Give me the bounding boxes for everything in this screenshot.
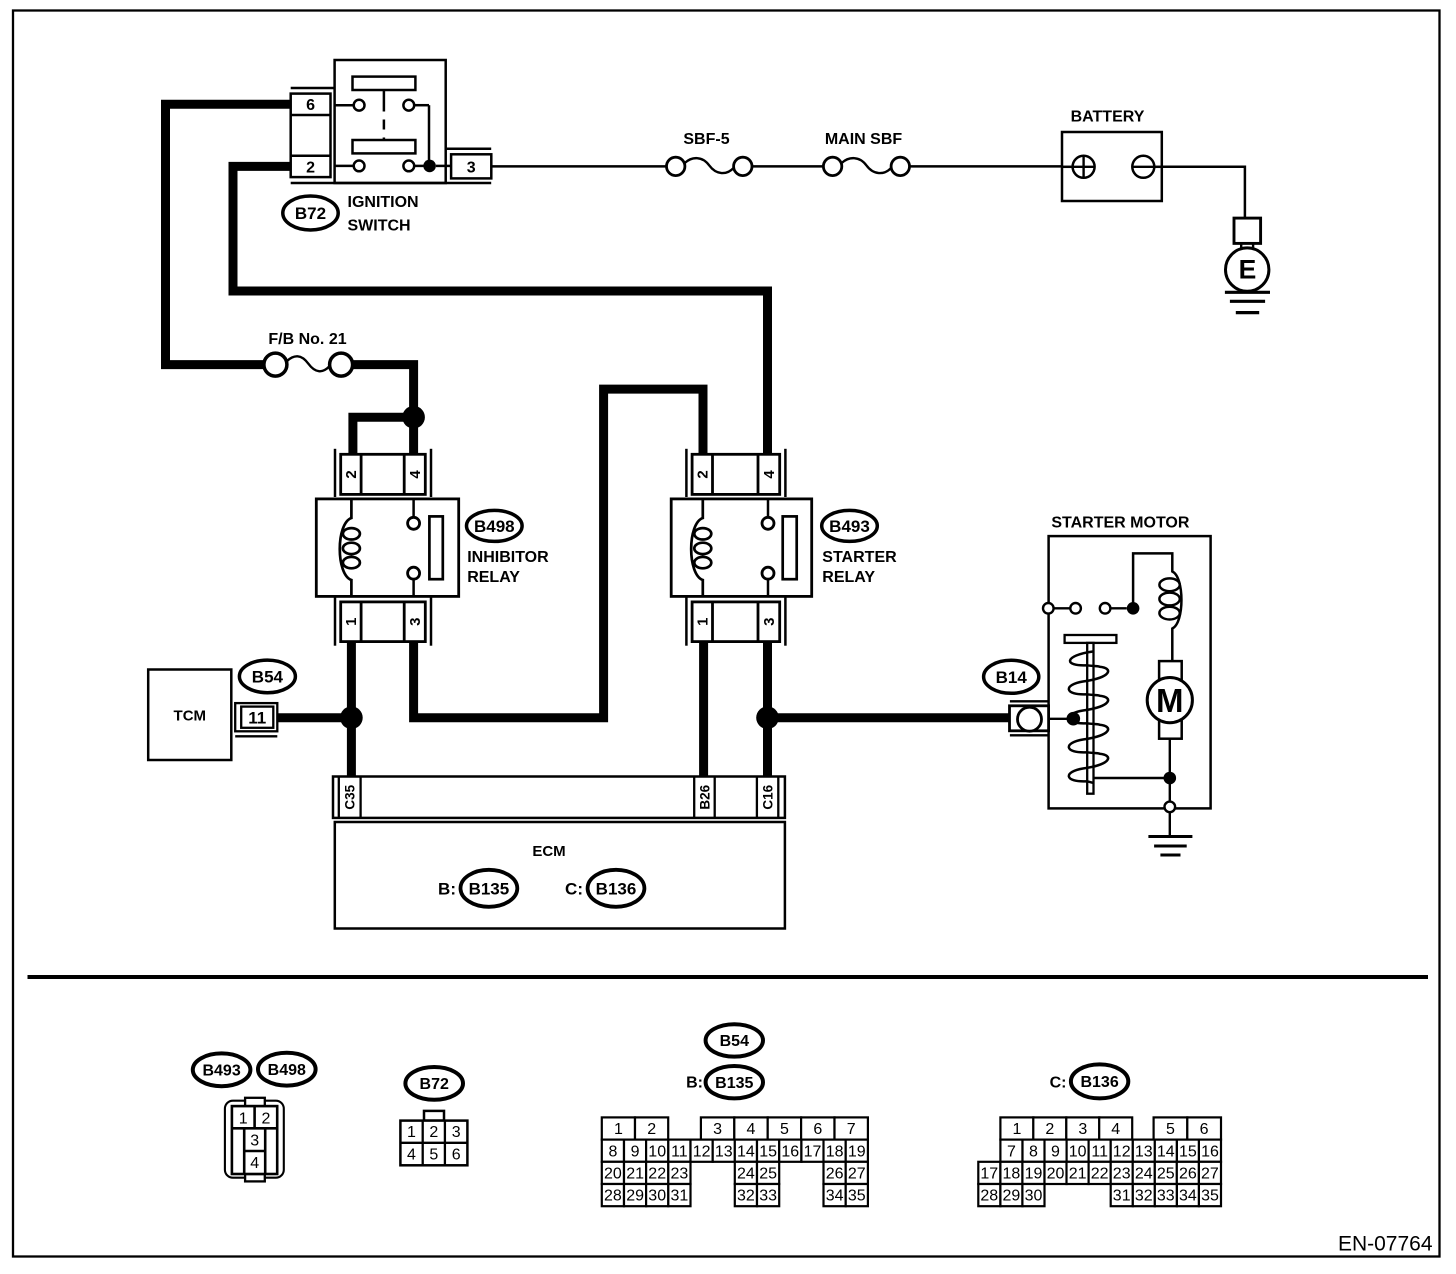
pin 3	[701, 1117, 734, 1139]
pin 9	[624, 1140, 646, 1162]
svg-text:IGNITION: IGNITION	[348, 194, 419, 211]
svg-text:18: 18	[1003, 1166, 1021, 1183]
switch actuator bottom bar	[353, 140, 416, 153]
svg-text:21: 21	[626, 1166, 644, 1183]
svg-text:B26: B26	[698, 784, 713, 809]
pin 12	[691, 1140, 713, 1162]
relay B493 body	[671, 499, 812, 597]
svg-text:5: 5	[780, 1121, 789, 1138]
svg-text:2: 2	[261, 1111, 270, 1128]
pin 10	[646, 1140, 668, 1162]
wire: junction to starter motor B14	[768, 713, 1011, 722]
pin 2	[635, 1117, 668, 1139]
pin 31	[1111, 1184, 1133, 1206]
oval B72	[283, 196, 338, 230]
svg-text:8: 8	[1029, 1143, 1038, 1160]
svg-text:3: 3	[407, 618, 424, 626]
TCM connector flange	[235, 735, 277, 737]
oval B136	[588, 870, 645, 907]
pin 13	[1133, 1140, 1155, 1162]
relay B493 contact	[767, 499, 770, 518]
separator line	[28, 975, 1429, 979]
svg-text:B54: B54	[720, 1033, 749, 1050]
pin 5	[768, 1117, 801, 1139]
svg-text:10: 10	[648, 1143, 666, 1160]
svg-text:3: 3	[713, 1121, 722, 1138]
svg-text:14: 14	[737, 1143, 755, 1160]
pin 28	[602, 1184, 624, 1206]
svg-text:TCM: TCM	[174, 708, 207, 725]
svg-text:2: 2	[306, 159, 315, 176]
svg-text:B:: B:	[686, 1074, 703, 1091]
svg-text:C:: C:	[1050, 1074, 1067, 1091]
svg-text:B72: B72	[295, 204, 326, 223]
fuse MAIN SBF	[823, 157, 841, 175]
switch contact stubs	[335, 104, 354, 107]
wire: F/B No.21 fuse to inhibitor relay pin 4	[353, 365, 414, 455]
svg-text:29: 29	[626, 1188, 644, 1205]
pin 21	[624, 1162, 646, 1184]
node: B14 to plunger	[1067, 712, 1081, 726]
svg-text:27: 27	[1201, 1166, 1219, 1183]
ECM box	[335, 822, 785, 929]
pin 1	[602, 1117, 635, 1139]
svg-text:8: 8	[608, 1143, 617, 1160]
svg-text:9: 9	[631, 1143, 640, 1160]
pin 19	[1022, 1162, 1044, 1184]
pin 18	[824, 1140, 846, 1162]
ECM connector strip	[333, 777, 785, 818]
svg-text:3: 3	[467, 159, 476, 176]
pin 32	[735, 1184, 757, 1206]
svg-text:B493: B493	[202, 1063, 240, 1080]
pin 15	[1177, 1140, 1199, 1162]
svg-text:5: 5	[1166, 1121, 1175, 1138]
svg-text:B136: B136	[1080, 1074, 1118, 1091]
svg-text:C16: C16	[761, 784, 776, 809]
svg-text:2: 2	[429, 1124, 438, 1141]
pin 17	[978, 1162, 1000, 1184]
svg-text:2: 2	[1045, 1121, 1054, 1138]
pin 23	[668, 1162, 690, 1184]
svg-text:B493: B493	[829, 517, 870, 536]
wire: TCM pin11 to junction	[277, 713, 351, 722]
wire: ignition pin2 to starter relay pin 4	[233, 166, 768, 454]
svg-text:34: 34	[826, 1188, 844, 1205]
pin 19	[846, 1140, 868, 1162]
pin 22	[646, 1162, 668, 1184]
pin 5	[1154, 1117, 1188, 1139]
ground symbol starter motor	[1148, 835, 1192, 838]
svg-text:26: 26	[1179, 1166, 1197, 1183]
relay B498 contact	[412, 499, 415, 518]
wire: ignition pin3 to SBF-5	[491, 165, 666, 168]
relay B498 bottom connector flange	[334, 598, 337, 646]
svg-text:20: 20	[1047, 1166, 1065, 1183]
pin 32	[1133, 1184, 1155, 1206]
svg-text:25: 25	[1157, 1166, 1175, 1183]
pin 25	[757, 1162, 779, 1184]
pin 34	[1177, 1184, 1199, 1206]
svg-text:5: 5	[429, 1147, 438, 1164]
pin 10	[1067, 1140, 1089, 1162]
pin 31	[668, 1184, 690, 1206]
pin 35	[846, 1184, 868, 1206]
oval B14	[984, 660, 1039, 693]
B14 connector flange	[1010, 700, 1049, 702]
svg-text:15: 15	[759, 1143, 777, 1160]
ground symbol	[1225, 291, 1270, 294]
svg-text:B136: B136	[596, 880, 637, 899]
svg-text:20: 20	[604, 1166, 622, 1183]
oval B493 (bottom)	[193, 1053, 251, 1086]
connector pin 3	[451, 154, 491, 178]
svg-text:1: 1	[614, 1121, 623, 1138]
svg-text:ECM: ECM	[532, 843, 565, 860]
pin 14	[735, 1140, 757, 1162]
wire: starter relay pin1 down to ECM B26	[699, 642, 708, 777]
svg-text:B498: B498	[268, 1062, 306, 1079]
fuse F/B No. 21	[264, 353, 287, 376]
svg-text:4: 4	[407, 470, 424, 479]
pin 14	[1155, 1140, 1177, 1162]
relay B498 top connector flange	[334, 449, 337, 497]
relay B493 bottom connector flange	[685, 598, 688, 646]
pin 9	[1045, 1140, 1067, 1162]
svg-text:13: 13	[715, 1143, 733, 1160]
svg-text:32: 32	[1135, 1188, 1153, 1205]
B14 connector	[1010, 706, 1049, 731]
pin 27	[846, 1162, 868, 1184]
wire: starter relay pin3 down to ECM C16	[763, 642, 772, 777]
oval B135 (bottom)	[706, 1066, 763, 1098]
ground E circle	[1226, 248, 1269, 291]
svg-text:7: 7	[1007, 1143, 1016, 1160]
svg-text:4: 4	[1111, 1121, 1120, 1138]
svg-text:EN-07764: EN-07764	[1338, 1232, 1433, 1255]
pin 7	[835, 1117, 868, 1139]
pin 6	[1187, 1117, 1221, 1139]
svg-text:B14: B14	[996, 668, 1028, 687]
svg-text:C:: C:	[565, 880, 583, 899]
svg-text:21: 21	[1069, 1166, 1087, 1183]
svg-text:B54: B54	[252, 668, 284, 687]
svg-text:M: M	[1156, 682, 1184, 719]
pin 34	[824, 1184, 846, 1206]
pin 21	[1067, 1162, 1089, 1184]
svg-text:B72: B72	[420, 1076, 449, 1093]
svg-text:2: 2	[647, 1121, 656, 1138]
svg-text:25: 25	[759, 1166, 777, 1183]
field coil	[1159, 578, 1179, 591]
relay B493 top connector pins 2/4	[692, 454, 780, 494]
svg-text:17: 17	[980, 1166, 998, 1183]
starter motor box	[1049, 536, 1211, 808]
svg-text:STARTER MOTOR: STARTER MOTOR	[1051, 515, 1190, 532]
pin 33	[1155, 1184, 1177, 1206]
pin 3	[1066, 1117, 1099, 1139]
svg-text:1: 1	[407, 1124, 416, 1141]
svg-text:3: 3	[1078, 1121, 1087, 1138]
pin 25	[1155, 1162, 1177, 1184]
svg-text:3: 3	[452, 1124, 461, 1141]
pin 29	[1000, 1184, 1022, 1206]
svg-text:7: 7	[847, 1121, 856, 1138]
pin 35	[1199, 1184, 1221, 1206]
connector B493/B498 pinout shell	[225, 1101, 284, 1178]
svg-text:B135: B135	[469, 880, 510, 899]
pin 27	[1199, 1162, 1221, 1184]
wire: inhibitor relay pin1 down to ECM C35	[347, 642, 356, 777]
connector pin 3 flange	[447, 147, 492, 150]
svg-text:31: 31	[1113, 1188, 1131, 1205]
battery minus terminal	[1132, 156, 1154, 178]
oval B54 (TCM)	[239, 660, 295, 693]
svg-text:6: 6	[1200, 1121, 1209, 1138]
svg-text:6: 6	[306, 97, 315, 114]
junction node at inhibitor relay feed	[402, 406, 425, 429]
svg-text:2: 2	[695, 470, 712, 478]
pin 2	[1033, 1117, 1066, 1139]
wire: MAIN SBF to battery	[910, 165, 1063, 168]
pin 1	[1000, 1117, 1033, 1139]
svg-text:2: 2	[343, 470, 360, 478]
svg-text:19: 19	[1025, 1166, 1043, 1183]
svg-text:6: 6	[813, 1121, 822, 1138]
wire: inhibitor relay pin3 to starter relay pin 2	[414, 389, 703, 718]
svg-text:17: 17	[804, 1143, 822, 1160]
connector B72 pinout	[424, 1111, 444, 1121]
plunger T bar	[1065, 635, 1117, 643]
node: contact to field coil	[1127, 602, 1140, 615]
pin 30	[646, 1184, 668, 1206]
svg-text:C35: C35	[343, 784, 358, 809]
svg-text:35: 35	[1201, 1188, 1219, 1205]
svg-text:30: 30	[1025, 1188, 1043, 1205]
TCM pin 11 connector	[235, 703, 277, 731]
svg-text:19: 19	[848, 1143, 866, 1160]
svg-text:12: 12	[693, 1143, 711, 1160]
svg-text:BATTERY: BATTERY	[1071, 108, 1145, 125]
svg-text:28: 28	[604, 1188, 622, 1205]
wire to field coil	[1133, 553, 1181, 661]
svg-text:4: 4	[407, 1147, 416, 1164]
solenoid contact circles	[1054, 607, 1071, 609]
ground connector box	[1234, 218, 1261, 243]
svg-text:22: 22	[648, 1166, 666, 1183]
svg-text:30: 30	[648, 1188, 666, 1205]
oval B498 (bottom)	[258, 1053, 316, 1086]
svg-text:32: 32	[737, 1188, 755, 1205]
pin 20	[1045, 1162, 1067, 1184]
svg-text:28: 28	[980, 1188, 998, 1205]
pin 4	[734, 1117, 767, 1139]
switch output node	[423, 160, 436, 173]
relay B493 contact bar	[783, 516, 797, 579]
pin 15	[757, 1140, 779, 1162]
wire: ignition pin6 to F/B No.21 fuse	[166, 104, 291, 364]
connector body	[232, 1106, 277, 1174]
svg-text:33: 33	[759, 1188, 777, 1205]
svg-text:16: 16	[781, 1143, 799, 1160]
svg-text:12: 12	[1113, 1143, 1131, 1160]
switch actuator link (dashed)	[383, 90, 386, 102]
svg-text:29: 29	[1003, 1188, 1021, 1205]
wire: battery to ground E	[1162, 167, 1245, 218]
svg-text:1: 1	[1012, 1121, 1021, 1138]
svg-text:SWITCH: SWITCH	[348, 218, 411, 235]
svg-text:RELAY: RELAY	[467, 569, 520, 586]
svg-text:B135: B135	[715, 1075, 753, 1092]
plunger rod	[1087, 643, 1093, 794]
connector flange bottom	[291, 182, 492, 185]
pin 11	[668, 1140, 690, 1162]
oval B493	[822, 510, 878, 541]
svg-text:1: 1	[695, 618, 712, 626]
svg-text:MAIN SBF: MAIN SBF	[825, 131, 903, 148]
svg-text:4: 4	[747, 1121, 756, 1138]
svg-text:INHIBITOR: INHIBITOR	[467, 549, 549, 566]
svg-text:6: 6	[452, 1147, 461, 1164]
pin 22	[1089, 1162, 1111, 1184]
motor M	[1159, 661, 1182, 739]
TCM box	[148, 670, 231, 761]
svg-text:3: 3	[761, 618, 778, 626]
pin 20	[602, 1162, 624, 1184]
pin 33	[757, 1184, 779, 1206]
pin 6	[801, 1117, 834, 1139]
svg-text:B498: B498	[474, 517, 515, 536]
switch actuator top bar	[353, 77, 416, 90]
pin 24	[1133, 1162, 1155, 1184]
junction node TCM/C35	[340, 706, 363, 729]
oval B72 (bottom)	[405, 1067, 463, 1100]
svg-text:9: 9	[1051, 1143, 1060, 1160]
svg-text:11: 11	[248, 709, 266, 728]
svg-text:4: 4	[761, 470, 778, 479]
svg-text:31: 31	[671, 1188, 689, 1205]
pin 13	[713, 1140, 735, 1162]
pin 18	[1000, 1162, 1022, 1184]
svg-text:18: 18	[826, 1143, 844, 1160]
pin 29	[624, 1184, 646, 1206]
oval B498	[467, 510, 523, 541]
svg-text:3: 3	[250, 1132, 259, 1149]
pin 4	[1099, 1117, 1132, 1139]
pin 24	[735, 1162, 757, 1184]
svg-text:24: 24	[1135, 1166, 1153, 1183]
pin 8	[602, 1140, 624, 1162]
pin 30	[1022, 1184, 1044, 1206]
svg-text:26: 26	[826, 1166, 844, 1183]
pin 8	[1023, 1140, 1045, 1162]
svg-text:33: 33	[1157, 1188, 1175, 1205]
svg-text:F/B No. 21: F/B No. 21	[268, 331, 346, 348]
pin 17	[801, 1140, 823, 1162]
connector flange top	[291, 87, 335, 90]
svg-text:23: 23	[1113, 1166, 1131, 1183]
switch contact circles	[354, 100, 365, 111]
svg-text:11: 11	[671, 1143, 688, 1160]
pin 16	[779, 1140, 801, 1162]
svg-text:22: 22	[1091, 1166, 1109, 1183]
svg-text:1: 1	[239, 1111, 248, 1128]
relay B498 coil	[340, 499, 352, 597]
svg-text:23: 23	[671, 1166, 689, 1183]
svg-text:E: E	[1239, 255, 1257, 285]
node below motor	[1164, 772, 1177, 785]
pin 12	[1111, 1140, 1133, 1162]
svg-text:1: 1	[343, 618, 360, 626]
svg-text:13: 13	[1135, 1143, 1153, 1160]
wire: SBF-5 to MAIN SBF	[752, 165, 823, 168]
svg-text:RELAY: RELAY	[822, 569, 875, 586]
svg-text:34: 34	[1179, 1188, 1197, 1205]
svg-text:B:: B:	[438, 880, 456, 899]
relay B493 coil	[691, 499, 703, 597]
fuse SBF-5	[667, 157, 685, 175]
pin 7	[1000, 1140, 1022, 1162]
relay B498 body	[316, 499, 458, 597]
pin 23	[1111, 1162, 1133, 1184]
pin 26	[824, 1162, 846, 1184]
svg-text:35: 35	[848, 1188, 866, 1205]
ignition switch box B72	[335, 60, 446, 183]
connector pins 6/2	[291, 94, 331, 178]
pin 11	[1089, 1140, 1111, 1162]
relay B498 bottom connector pins 1/3	[341, 602, 426, 642]
svg-text:14: 14	[1157, 1143, 1175, 1160]
pin 26	[1177, 1162, 1199, 1184]
svg-text:STARTER: STARTER	[822, 549, 897, 566]
svg-text:27: 27	[848, 1166, 866, 1183]
relay B493 bottom connector pins 1/3	[692, 602, 780, 642]
plunger spring	[1069, 652, 1108, 784]
svg-text:SBF-5: SBF-5	[683, 131, 729, 148]
ground terminal circle	[1165, 802, 1176, 813]
oval B54 (bottom)	[706, 1024, 763, 1056]
svg-text:16: 16	[1201, 1143, 1219, 1160]
oval B136 (bottom)	[1071, 1064, 1128, 1098]
svg-text:4: 4	[250, 1155, 259, 1172]
junction node starter relay/C16/B14	[756, 706, 779, 729]
svg-text:11: 11	[1091, 1143, 1108, 1160]
relay B498 contact bar	[429, 516, 442, 579]
pin 28	[978, 1184, 1000, 1206]
relay B493 top connector flange	[685, 449, 688, 497]
oval B135	[461, 870, 518, 907]
wire: branch to inhibitor relay pin 2	[353, 417, 414, 454]
svg-text:15: 15	[1179, 1143, 1197, 1160]
relay B498 top connector pins 2/4	[341, 454, 426, 494]
pin 16	[1199, 1140, 1221, 1162]
svg-text:10: 10	[1069, 1143, 1087, 1160]
battery plus terminal	[1073, 156, 1095, 178]
svg-text:24: 24	[737, 1166, 755, 1183]
